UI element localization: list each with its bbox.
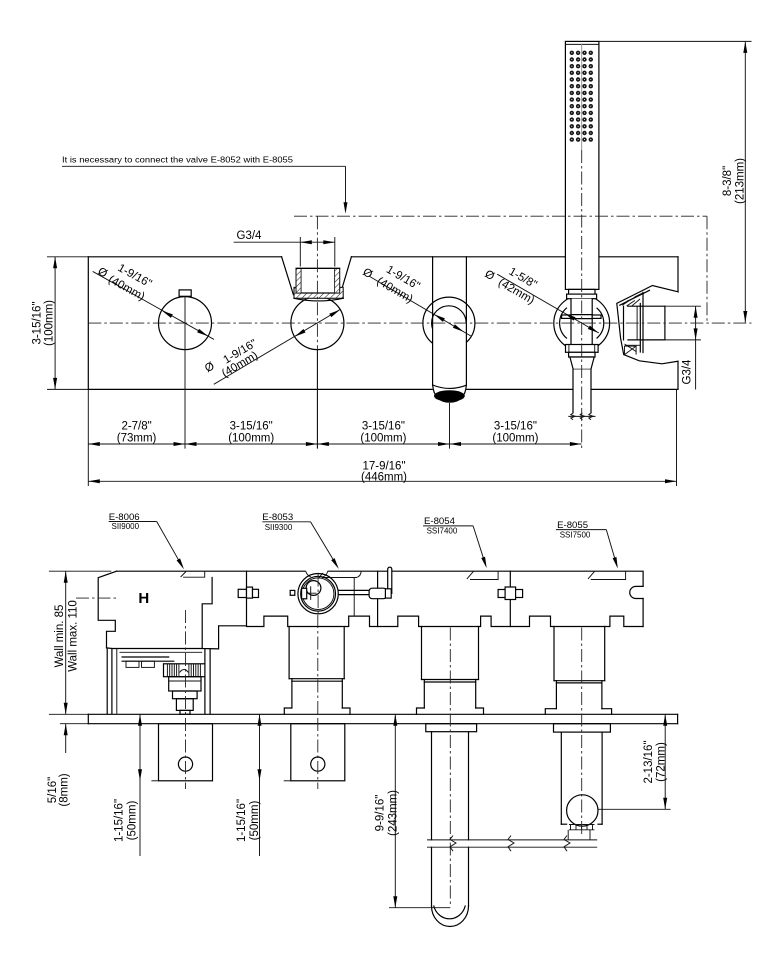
handle trim square 1	[151, 718, 212, 789]
svg-text:H: H	[138, 590, 149, 607]
spray face dot grid	[570, 51, 593, 142]
right slot notch	[630, 586, 643, 598]
svg-text:(243mm): (243mm)	[388, 790, 400, 836]
wall trim plate	[88, 714, 677, 723]
part label E-8054	[423, 516, 489, 569]
handle projection dimension 2	[236, 714, 262, 856]
body section 1 (E-8006) outline	[98, 571, 246, 714]
valve column 2 above plate	[284, 627, 350, 715]
svg-text:1-15/16": 1-15/16"	[114, 799, 126, 842]
svg-text:SSI7500: SSI7500	[560, 530, 591, 539]
svg-text:8-3/8": 8-3/8"	[722, 166, 734, 196]
svg-text:3-15/16": 3-15/16"	[362, 420, 405, 432]
svg-text:3-15/16": 3-15/16"	[230, 420, 273, 432]
note text with leader	[62, 155, 348, 214]
centerline valve 2	[316, 350, 318, 449]
part label E-8006	[109, 512, 186, 571]
G3/4 top dimension	[234, 230, 335, 267]
svg-text:(446mm): (446mm)	[361, 472, 407, 484]
handle tube through holder	[571, 299, 592, 345]
spout tube with break	[432, 628, 469, 927]
main horizontal centerline	[88, 322, 751, 324]
svg-text:(100mm): (100mm)	[228, 433, 274, 445]
valve column 3 above plate	[417, 627, 484, 715]
hose outlet collar below plate	[554, 724, 611, 732]
right height dimension 8-3/8 (213mm)	[599, 41, 752, 322]
hose outlet dimension 2-13/16 (72mm)	[599, 714, 671, 809]
svg-text:SSI7400: SSI7400	[427, 527, 458, 536]
break band	[427, 836, 597, 852]
svg-text:Wall max. 110: Wall max. 110	[68, 600, 80, 672]
spout circles (Ø40 escutcheon)	[423, 297, 475, 389]
svg-text:E-8053: E-8053	[262, 512, 293, 523]
svg-text:17-9/16": 17-9/16"	[362, 460, 405, 472]
G3/4 top inlet fitting	[294, 268, 343, 301]
diameter label spout circle 3	[360, 264, 471, 337]
G3/4 outlet dimension (right)	[652, 306, 701, 389]
shower centerline	[581, 44, 583, 150]
svg-text:(100mm): (100mm)	[44, 300, 56, 346]
joint connector nut 2	[498, 587, 522, 600]
hose taper	[570, 357, 594, 369]
svg-text:(50mm): (50mm)	[127, 801, 139, 841]
column 4 centerline	[581, 628, 583, 837]
left height dimension 3-15/16 (100mm)	[32, 257, 89, 390]
dimension row 2 total	[88, 460, 676, 483]
hand shower holder circle (Ø42)	[554, 295, 610, 351]
svg-text:SII9300: SII9300	[265, 523, 293, 532]
connect-line (dash-dot) between valve E-8052 and E-8055	[294, 216, 707, 349]
svg-text:It is necessary to connect the: It is necessary to connect the valve E-8…	[62, 155, 293, 165]
plate thickness dimension 5/16 (8mm)	[47, 724, 88, 807]
diameter label holder circle 4	[483, 266, 600, 335]
svg-text:(100mm): (100mm)	[360, 433, 406, 445]
joint connector nut 1	[238, 587, 258, 598]
svg-text:(213mm): (213mm)	[735, 158, 747, 204]
hose	[573, 369, 591, 413]
svg-text:SII9000: SII9000	[112, 522, 140, 531]
hose nut under holder	[566, 345, 599, 358]
svg-text:5/16": 5/16"	[47, 777, 59, 803]
svg-text:2-13/16": 2-13/16"	[643, 740, 655, 783]
diameter label circle 1	[93, 262, 214, 339]
extension lines row1	[88, 350, 676, 486]
bar recess for G3/4 inlet	[282, 257, 352, 295]
svg-text:G3/4: G3/4	[682, 359, 694, 385]
column 2 centerline	[317, 615, 319, 716]
dimension row 1	[88, 420, 581, 446]
column 1 centerline	[185, 610, 187, 716]
hose break marks	[568, 413, 595, 420]
diameter label circle 2	[203, 308, 341, 384]
hose outlet ball	[567, 795, 598, 826]
svg-text:2-7/8": 2-7/8"	[121, 420, 151, 432]
faucet bar outline	[88, 257, 678, 390]
part label E-8055	[556, 520, 620, 569]
part label E-8053	[262, 512, 340, 570]
rough-in body outline	[117, 571, 644, 626]
svg-text:1-15/16": 1-15/16"	[236, 799, 248, 842]
hand shower head	[565, 41, 599, 289]
handle projection dimension 1	[114, 714, 143, 856]
hose outlet tube	[561, 732, 602, 824]
E-8006 internals: outlet plate and cartridge	[120, 652, 205, 714]
svg-text:3-15/16": 3-15/16"	[494, 420, 537, 432]
svg-text:(72mm): (72mm)	[656, 742, 668, 782]
spout tube	[433, 257, 467, 402]
hand shower handle connector rings	[567, 289, 597, 298]
svg-text:(100mm): (100mm)	[492, 433, 538, 445]
valve column 4 above plate	[545, 627, 611, 715]
valve circle 2 (diverter Ø40)	[291, 297, 344, 350]
svg-text:G3/4: G3/4	[237, 230, 263, 242]
svg-text:(73mm): (73mm)	[117, 433, 157, 445]
spout extension line to dim	[449, 403, 451, 449]
bottom edge with notches	[247, 616, 644, 626]
handle trim square 2	[284, 718, 345, 789]
wall depth dimension	[49, 571, 111, 714]
section joints	[247, 571, 511, 626]
thermostat valve E-8053 internals	[290, 570, 338, 614]
hose connector teeth	[568, 825, 594, 840]
wall bracket for hand shower (right)	[617, 286, 678, 364]
valve circle 1 (handle Ø40)	[159, 290, 212, 350]
left stub centerline	[76, 597, 118, 599]
mounting tabs on top edge	[181, 571, 626, 616]
svg-text:(50mm): (50mm)	[249, 801, 261, 841]
svg-text:Wall min. 85: Wall min. 85	[54, 605, 66, 668]
limit pin	[388, 567, 392, 593]
svg-text:3-15/16": 3-15/16"	[32, 301, 44, 344]
svg-text:(8mm): (8mm)	[59, 773, 71, 806]
spout collar below plate	[426, 724, 477, 732]
spout length dimension 9-9/16 (243mm)	[375, 714, 451, 907]
svg-text:9-9/16": 9-9/16"	[375, 795, 387, 832]
holder clamp band	[562, 315, 601, 319]
temperature rod	[338, 588, 391, 599]
